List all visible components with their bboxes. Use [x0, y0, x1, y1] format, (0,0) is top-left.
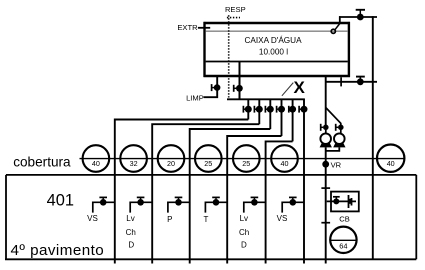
column circle 64: [330, 227, 356, 253]
column circle 40 (riser 1): [83, 145, 110, 172]
barrilete drop 6 with gate valve (riser 6): [299, 99, 307, 263]
svg-text:Lv: Lv: [240, 214, 248, 223]
meter assembly CB box: [331, 192, 359, 212]
pump B2: [333, 130, 345, 147]
svg-text:cobertura: cobertura: [13, 155, 71, 170]
column circle 40 (riser 6): [271, 145, 298, 172]
gate valve on LIMP pipe: [212, 84, 221, 91]
pipe: elbow feed to riser 5: [266, 141, 293, 263]
pipe: main column to street: [325, 166, 327, 264]
branch riser 5 with gate valve: [244, 197, 266, 212]
branch riser 3 with gate valve: [168, 197, 190, 212]
gate valve pump 2 suction: [336, 124, 344, 131]
svg-text:20: 20: [167, 159, 175, 168]
column circle 20 (riser 3): [158, 145, 185, 172]
pipe: diagonal split to pump 2: [326, 108, 341, 126]
pipe: elbow feed to riser 1: [115, 120, 249, 264]
barrilete drop 5 with gate valve: [288, 99, 296, 141]
svg-text:T: T: [204, 215, 209, 224]
svg-text:P: P: [167, 215, 172, 224]
pipe: elbow feed to riser 2: [152, 124, 259, 263]
svg-text:LIMP: LIMP: [186, 94, 204, 103]
check valve in CB box: [349, 195, 352, 208]
svg-text:64: 64: [339, 242, 347, 251]
column circle 25 (riser 5): [233, 145, 260, 172]
svg-text:40: 40: [92, 159, 100, 168]
column circle 40 (right feed riser): [377, 145, 404, 172]
pipe: pump column from tank bottom: [325, 76, 327, 125]
svg-text:Ch: Ch: [239, 228, 249, 237]
pump B1: [320, 130, 332, 147]
pipe: top feed line: [339, 16, 377, 18]
column circle 25 (riser 4): [195, 145, 222, 172]
column circle 32 (riser 2): [120, 145, 147, 172]
chord line through circle 64: [330, 239, 356, 241]
pipe: pump 2 outlet elbow: [326, 147, 340, 151]
svg-text:VS: VS: [87, 214, 98, 223]
vent pipe RESP dotted vertical: [228, 15, 230, 97]
branch riser 2 with gate valve: [130, 197, 152, 212]
annotation leader line: [282, 83, 293, 96]
svg-text:D: D: [241, 240, 247, 249]
svg-text:VR: VR: [331, 160, 342, 169]
pipe: pump discharge branch: [326, 81, 377, 83]
barrilete drop 4 with gate valve: [277, 99, 285, 136]
gate valve on tank outlet: [234, 85, 243, 92]
svg-text:Ch: Ch: [126, 228, 136, 237]
gate valve pump 1 suction: [321, 124, 329, 131]
svg-text:CB: CB: [339, 215, 350, 224]
cross fitting on discharge branch: [340, 77, 342, 86]
svg-text:32: 32: [130, 159, 138, 168]
svg-text:Lv: Lv: [126, 214, 134, 223]
float ball: [331, 29, 335, 33]
tank water level line: [206, 30, 348, 32]
pipe: barrilete manifold: [227, 98, 305, 100]
vent pipe RESP dotted horizontal: [227, 17, 240, 19]
barrilete drop 3 with gate valve: [265, 99, 273, 129]
pipe: elbow feed to riser 3: [190, 129, 271, 264]
branch riser 1 with gate valve: [93, 197, 115, 212]
svg-text:CAIXA D'ÁGUA: CAIXA D'ÁGUA: [244, 35, 302, 45]
cross fitting upper: [321, 187, 330, 189]
svg-text:4º pavimento: 4º pavimento: [11, 242, 105, 259]
svg-text:25: 25: [204, 159, 212, 168]
4th floor box: [5, 175, 416, 259]
pipe: elbow feed to riser 4: [227, 136, 281, 264]
gate valve on top feed line: [356, 10, 365, 21]
cross fitting lower: [321, 222, 330, 224]
svg-text:VS: VS: [277, 214, 288, 223]
pipe: pump 1 outlet down: [325, 147, 327, 164]
branch riser 4 with gate valve: [205, 197, 227, 212]
pipe through CB box: [327, 200, 356, 202]
check valve VR: [322, 161, 329, 168]
svg-text:X: X: [294, 78, 306, 97]
svg-text:25: 25: [242, 159, 250, 168]
barrilete drop 1 with gate valve: [243, 99, 251, 119]
svg-text:40: 40: [281, 159, 289, 168]
svg-text:10.000 l: 10.000 l: [259, 47, 288, 56]
cobertura slab line: [80, 158, 405, 160]
svg-text:EXTR: EXTR: [177, 23, 198, 32]
svg-text:401: 401: [47, 192, 74, 210]
drain pipe LIMP: [204, 76, 218, 97]
svg-text:RESP: RESP: [225, 5, 246, 14]
svg-text:D: D: [128, 240, 134, 249]
gate valve in CB box: [333, 197, 340, 205]
water tank outline: [204, 22, 351, 77]
branch riser 6 with gate valve: [282, 197, 304, 212]
tank floor line: [206, 61, 348, 63]
pipe: tank outlet to barrilete: [239, 62, 241, 101]
gate valve on discharge branch: [356, 77, 365, 86]
svg-text:40: 40: [387, 159, 395, 168]
inlet pipe drop into tank: [339, 16, 341, 24]
overflow pipe EXTR: [198, 27, 210, 29]
float valve arm: [335, 24, 340, 31]
barrilete drop 2 with gate valve: [254, 99, 262, 124]
pipe: right riser (street feed): [372, 16, 374, 259]
